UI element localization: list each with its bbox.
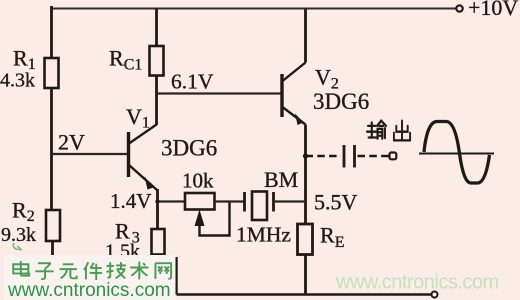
- resistor R2: [46, 210, 60, 241]
- wire V1 base (2V node): [52, 153, 129, 155]
- wire top rail +10V: [51, 8, 456, 10]
- terminal +10V: [456, 5, 462, 11]
- svg-text:4.3k: 4.3k: [0, 70, 35, 92]
- svg-text:3DG6: 3DG6: [313, 89, 369, 114]
- resistor R1: [45, 58, 59, 88]
- node V2 emitter / output junction: [303, 153, 308, 158]
- svg-text:6.1V: 6.1V: [171, 70, 214, 94]
- wire RE to bottom rail: [304, 255, 307, 295]
- jian: [84, 262, 102, 280]
- resistor R3: [152, 229, 165, 255]
- terminal bottom: [432, 292, 438, 298]
- watermark text 电子元件技术网: [13, 261, 171, 280]
- potentiometer 10k: [185, 193, 215, 210]
- yuan: [60, 264, 77, 278]
- wire V2 collector to top rail: [304, 9, 307, 63]
- capacitor output: [344, 145, 355, 168]
- node emitter R3 junction: [155, 199, 159, 203]
- wire output coupling (dashed): [306, 155, 342, 157]
- watermark artifact squiggle: [13, 243, 22, 250]
- label 输出 (output) glyph chu: [394, 121, 410, 141]
- svg-text:BM: BM: [264, 167, 298, 192]
- terminal output: [390, 153, 397, 160]
- resistor RC1: [150, 46, 164, 76]
- wire pot right side: [215, 200, 244, 202]
- wire 6.1V node to V2 base: [157, 92, 283, 94]
- resistor RE: [298, 224, 313, 255]
- pot wiper arrow and return wire: [195, 210, 205, 227]
- wire left branch vertical (R1/R2 string): [52, 6, 53, 257]
- zi: [35, 263, 53, 279]
- wire emitter node to potentiometer: [158, 200, 186, 202]
- wire capacitor to output terminal (dashed): [358, 155, 389, 157]
- wire V2 emitter vertical: [304, 125, 307, 225]
- svg-text:9.3k: 9.3k: [1, 224, 36, 246]
- shu2: [130, 262, 148, 280]
- svg-text:10k: 10k: [182, 169, 214, 193]
- svg-text:3DG6: 3DG6: [161, 136, 217, 161]
- wire RC1 branch vertical: [155, 9, 158, 126]
- svg-text:www.cntronics.com: www.cntronics.com: [335, 272, 499, 294]
- label 输出 (output) glyph shu: [367, 121, 386, 139]
- wire V1 emitter vertical: [156, 189, 159, 229]
- wang: [155, 263, 171, 279]
- sine wave axis: [419, 153, 494, 155]
- watermark panel (cntronics): [4, 255, 176, 300]
- dian: [13, 261, 29, 276]
- wire bottom ground rail: [177, 257, 432, 295]
- svg-text:1.4V: 1.4V: [110, 189, 151, 213]
- sine wave: [424, 122, 490, 184]
- svg-text:1MHz: 1MHz: [236, 223, 291, 247]
- transistor V2: [282, 63, 306, 125]
- svg-text:+10V: +10V: [468, 0, 518, 20]
- wire crystal to V2 emitter: [275, 200, 304, 202]
- transistor V1: [129, 125, 158, 191]
- svg-text:www.cntronics.com: www.cntronics.com: [7, 280, 171, 300]
- ji: [106, 262, 125, 278]
- svg-text:2V: 2V: [58, 130, 85, 155]
- crystal BM: [245, 192, 274, 221]
- svg-text:5.5V: 5.5V: [314, 190, 358, 215]
